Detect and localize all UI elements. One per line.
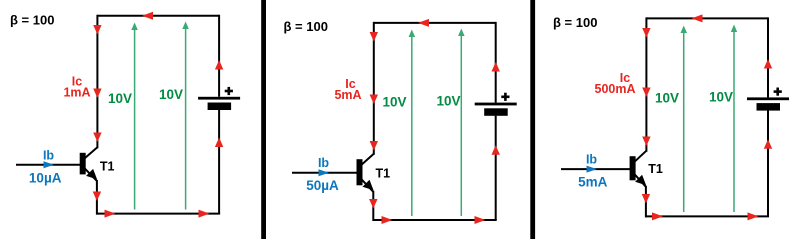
wire right upper (to battery +) (panel 3): [767, 17, 769, 97]
label 10&#181;A (panel 1): [29, 170, 62, 185]
current arrow on emitter wire (panel 3): [642, 194, 650, 204]
current arrow on collector wire #3 (panel 3): [642, 137, 650, 147]
current arrow on emitter wire (panel 2): [369, 199, 377, 209]
transistor T1 (NPN) (panel 2): [357, 154, 374, 192]
voltage arrow 10V #1 (green) (panel 3): [681, 26, 688, 213]
wire bottom (panel 1): [96, 213, 220, 215]
current arrow on collector wire #3 (panel 2): [370, 141, 378, 151]
svg-text:10V: 10V: [709, 90, 733, 105]
svg-text:Ib: Ib: [586, 153, 597, 167]
current arrow on bottom wire #2 (panel 1): [199, 210, 210, 218]
battery 10V (panel 1): [198, 97, 240, 110]
transistor T1 (NPN) (panel 3): [630, 151, 647, 187]
wire bottom (panel 2): [373, 219, 497, 221]
svg-text:10V: 10V: [159, 87, 183, 102]
svg-text:500mA: 500mA: [595, 82, 636, 96]
wire left / collector branch (panel 2): [373, 22, 375, 155]
voltage arrow 10V #2 (green) (panel 2): [458, 29, 465, 217]
divider bar between panel 2 and panel 3: [530, 0, 535, 239]
transistor T1 (NPN) (panel 1): [80, 147, 98, 181]
current arrow on right wire above battery (panel 1): [215, 60, 223, 70]
wire right upper (to battery +) (panel 1): [218, 15, 220, 97]
label 10V #2 (panel 2): [437, 94, 461, 109]
svg-text:50µA: 50µA: [306, 178, 339, 193]
label T1 (panel 3): [648, 162, 663, 176]
label 10V #1 (panel 1): [108, 91, 132, 106]
label + (battery positive) (panel 2): [501, 93, 509, 101]
current arrow on top wire (pointing left) (panel 3): [692, 14, 703, 22]
wire left / collector branch (panel 1): [96, 15, 98, 149]
svg-text:10V: 10V: [655, 91, 679, 106]
svg-text:T1: T1: [376, 166, 391, 180]
label Ic (panel 1): [72, 75, 82, 89]
svg-text:5mA: 5mA: [334, 88, 361, 102]
label beta = 100 (panel 2): [284, 19, 328, 34]
current arrow on collector wire #2 (panel 3): [642, 88, 650, 98]
svg-text:T1: T1: [100, 160, 115, 174]
svg-text:10V: 10V: [108, 91, 132, 106]
label 10V #1 (panel 2): [383, 95, 407, 110]
current arrow on bottom wire #1 (panel 1): [105, 210, 116, 218]
current arrow on bottom wire #1 (panel 3): [652, 212, 663, 220]
wire emitter to bottom rail (panel 1): [96, 180, 98, 215]
label beta = 100 (panel 1): [10, 13, 54, 28]
wire base (panel 2): [292, 172, 359, 174]
current arrow on collector wire #3 (panel 1): [93, 133, 101, 143]
svg-text:1mA: 1mA: [63, 86, 90, 100]
label + (battery positive) (panel 1): [225, 87, 233, 95]
label Ib (panel 2): [318, 156, 329, 170]
current arrow on emitter wire (panel 1): [93, 192, 101, 202]
battery 10V (panel 2): [475, 103, 517, 116]
current arrow on collector wire #1 (panel 1): [93, 25, 101, 35]
current arrow on collector wire #2 (panel 1): [93, 89, 101, 99]
wire top (panel 3): [646, 17, 768, 19]
svg-text:Ib: Ib: [318, 156, 329, 170]
voltage arrow 10V #1 (green) (panel 1): [131, 23, 138, 210]
svg-text:β = 100: β = 100: [10, 13, 54, 28]
label Ic (panel 3): [620, 71, 630, 85]
label Ic (panel 2): [345, 77, 355, 91]
current arrow on top wire (pointing left) (panel 2): [418, 19, 429, 27]
current arrow Ib on base wire (panel 1): [44, 161, 55, 168]
label Ib (panel 1): [43, 148, 54, 162]
svg-text:10µA: 10µA: [29, 170, 62, 185]
current arrow on collector wire #2 (panel 2): [370, 95, 378, 105]
current arrow on collector wire #1 (panel 3): [642, 28, 650, 38]
label 10V #2 (panel 1): [159, 87, 183, 102]
wire emitter to bottom rail (panel 3): [645, 186, 647, 218]
svg-text:10V: 10V: [383, 95, 407, 110]
label 1mA (panel 1): [63, 86, 90, 100]
wire base (panel 3): [561, 168, 632, 170]
wire right upper (to battery +) (panel 2): [495, 22, 497, 103]
wire right lower (from battery -) (panel 1): [218, 110, 220, 214]
label beta = 100 (panel 3): [553, 15, 597, 30]
current arrow on collector wire #1 (panel 2): [370, 32, 378, 42]
current arrow Ib on base wire (panel 2): [319, 169, 330, 176]
wire top (panel 1): [97, 15, 219, 17]
label 500mA (panel 3): [595, 82, 636, 96]
svg-text:T1: T1: [648, 162, 663, 176]
wire emitter to bottom rail (panel 2): [372, 191, 374, 221]
voltage arrow 10V #2 (green) (panel 3): [731, 25, 737, 213]
current arrow on bottom wire #2 (panel 2): [475, 216, 486, 224]
label + (battery positive) (panel 3): [774, 88, 782, 96]
svg-text:10V: 10V: [437, 94, 461, 109]
label T1 (panel 2): [376, 166, 391, 180]
label 50&#181;A (panel 2): [306, 178, 339, 193]
battery 10V (panel 3): [747, 97, 789, 110]
svg-text:Ib: Ib: [43, 148, 54, 162]
wire top (panel 2): [374, 22, 496, 24]
divider bar between panel 1 and panel 2: [261, 0, 266, 239]
current arrow on right wire below battery (panel 3): [764, 139, 772, 149]
label 10V #2 (panel 3): [709, 90, 733, 105]
label T1 (panel 1): [100, 160, 115, 174]
label 5mA (panel 2): [334, 88, 361, 102]
wire bottom (panel 3): [645, 215, 769, 217]
svg-text:β = 100: β = 100: [553, 15, 597, 30]
wire base (panel 1): [16, 164, 82, 166]
label 5mA (panel 3): [578, 175, 608, 190]
current arrow on right wire above battery (panel 3): [764, 59, 772, 69]
current arrow on right wire below battery (panel 1): [215, 138, 223, 148]
svg-text:5mA: 5mA: [578, 175, 608, 190]
wire left / collector branch (panel 3): [645, 17, 647, 151]
current arrow on bottom wire #1 (panel 2): [382, 216, 393, 224]
svg-text:β = 100: β = 100: [284, 19, 328, 34]
current arrow on right wire below battery (panel 2): [492, 145, 500, 155]
voltage arrow 10V #1 (green) (panel 2): [409, 30, 416, 217]
label 10V #1 (panel 3): [655, 91, 679, 106]
current arrow Ib on base wire (panel 3): [587, 166, 598, 173]
voltage arrow 10V #2 (green) (panel 1): [182, 22, 189, 210]
wire right lower (from battery -) (panel 3): [767, 110, 769, 216]
current arrow on bottom wire #2 (panel 3): [748, 212, 759, 220]
current arrow on right wire above battery (panel 2): [492, 62, 500, 72]
label Ib (panel 3): [586, 153, 597, 167]
wire right lower (from battery -) (panel 2): [495, 116, 497, 220]
current arrow on top wire (pointing left) (panel 1): [142, 12, 153, 20]
